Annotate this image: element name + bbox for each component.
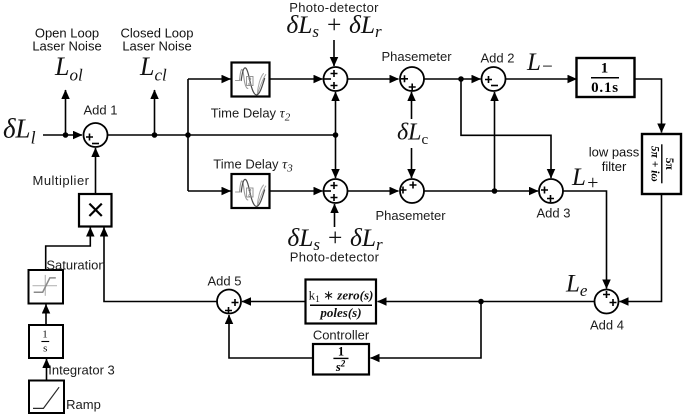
svg-text:Ramp: Ramp — [66, 397, 101, 412]
svg-text:1: 1 — [338, 344, 344, 358]
node Closed Loop Laser Noise label — [121, 26, 194, 54]
node junction after phasemeter top — [458, 76, 464, 82]
wire Time Delay tau2 to sum — [270, 78, 323, 80]
node delta L_l input label — [3, 114, 36, 148]
wire branch to 1/s^2 controller — [371, 302, 482, 359]
svg-text:Add 5: Add 5 — [208, 274, 242, 289]
wire Time Delay tau3 to sum — [270, 190, 323, 192]
svg-text:Integrator 3: Integrator 3 — [48, 363, 115, 378]
svg-text:Photo-detector: Photo-detector — [290, 250, 380, 265]
node junction controller branch — [478, 299, 484, 305]
wire branch up to top sum — [335, 92, 337, 135]
svg-text:Laser Noise: Laser Noise — [122, 39, 191, 54]
svg-text:Add 1: Add 1 — [84, 103, 118, 118]
wire phasemeter top output — [424, 78, 481, 80]
svg-text:Add 4: Add 4 — [590, 318, 624, 333]
node L_e label — [565, 271, 588, 301]
summing junction Add 2 — [481, 51, 515, 92]
summing junction Add 5 — [208, 274, 242, 315]
wire branch down to bottom sum — [335, 135, 337, 178]
wire branch down to Add 3 — [461, 79, 551, 178]
wire Add 2 output to integrator block — [506, 78, 577, 80]
wire input to Add 1 — [43, 134, 82, 136]
wire sum to phasemeter bottom — [348, 190, 399, 192]
wire integrator output to saturation — [45, 305, 47, 326]
svg-text:Multiplier: Multiplier — [32, 173, 89, 188]
wire saturation output to multiplier — [46, 228, 91, 271]
block multiplier — [32, 173, 111, 227]
node junction closed-loop tap — [152, 132, 158, 138]
wire photodetector noise down arrow top — [333, 40, 335, 66]
svg-text:5π + iω: 5π + iω — [648, 146, 660, 182]
wire Add 4 output to zero block — [378, 301, 595, 303]
block low pass filter 5pi/(5pi+iw) — [589, 134, 681, 194]
wire Add 3 output to Add 4 — [563, 191, 607, 289]
svg-text:Phasemeter: Phasemeter — [375, 208, 446, 223]
node junction split to delay rows — [185, 132, 191, 138]
wire multiplier output to Add 1 — [95, 148, 97, 194]
block ramp — [29, 381, 101, 414]
svg-text:s: s — [43, 343, 47, 355]
wire open loop tap up arrow — [65, 90, 67, 135]
node L_cl label — [139, 52, 167, 85]
wire branch up to Add 2 — [494, 92, 496, 191]
wire vertical split — [187, 79, 189, 191]
wire photodetector noise up arrow bottom — [334, 204, 336, 227]
summing junction Phasemeter bottom — [375, 179, 446, 223]
svg-text:δLs + δLr: δLs + δLr — [286, 10, 382, 41]
node delta Ls + delta Lr top label — [286, 10, 382, 41]
node delta Ls + delta Lr bottom label — [287, 223, 383, 254]
node delta L_c label — [397, 120, 429, 149]
node junction open-loop tap — [63, 132, 69, 138]
svg-text:Controller: Controller — [313, 328, 370, 343]
wire to Time Delay tau3 — [188, 190, 231, 192]
block saturation — [29, 258, 106, 304]
wire 1/s^2 output to Add 5 — [229, 315, 313, 358]
wire sum to phasemeter top — [348, 78, 399, 80]
block k1*zero(s)/poles(s) — [306, 280, 377, 324]
svg-text:low pass: low pass — [589, 145, 640, 160]
block Time Delay tau3 — [213, 157, 293, 209]
summing junction Add 4 — [590, 290, 624, 333]
svg-text:poles(s): poles(s) — [319, 305, 361, 320]
wire phasemeter bottom output to Add 3 — [424, 190, 538, 192]
block integrator 1/s — [29, 325, 115, 378]
node L_plus label — [571, 164, 599, 194]
svg-text:5π: 5π — [663, 158, 675, 171]
svg-text:Saturation: Saturation — [46, 258, 105, 273]
svg-text:Add 2: Add 2 — [481, 51, 515, 66]
wire 1/0.1s output to low pass filter — [635, 79, 662, 133]
svg-text:0.1s: 0.1s — [591, 80, 619, 96]
svg-text:Add 3: Add 3 — [537, 206, 571, 221]
svg-text:Laser Noise: Laser Noise — [32, 39, 101, 54]
wire ramp output to integrator — [46, 359, 48, 381]
summing junction Phasemeter top — [381, 49, 452, 91]
wire Add 1 output main line — [108, 134, 336, 136]
svg-text:1: 1 — [601, 61, 609, 77]
block 1/0.1s — [577, 58, 635, 97]
node junction after phasemeter bottom — [492, 188, 498, 194]
summing junction Add 1 — [84, 103, 118, 148]
wire zero block output to Add 5 — [242, 301, 306, 303]
block Time Delay tau2 — [211, 63, 291, 124]
node junction main to sums — [333, 132, 339, 138]
wire to Time Delay tau2 — [188, 78, 231, 80]
wire Add 5 output to multiplier — [104, 228, 217, 302]
block controller 1/s^2 — [313, 328, 370, 375]
svg-text:1: 1 — [42, 328, 48, 340]
svg-text:Phasemeter: Phasemeter — [381, 49, 452, 64]
summing junction photodetector bottom — [324, 179, 348, 203]
summing junction photodetector top — [324, 67, 348, 91]
wire delta L_c down arrow — [411, 148, 413, 178]
svg-text:filter: filter — [602, 159, 627, 174]
node L_minus label — [526, 49, 554, 78]
wire delta L_c up arrow — [411, 92, 413, 119]
node L_ol label — [54, 52, 83, 85]
wire closed loop tap up arrow — [154, 90, 156, 135]
summing junction Add 3 — [537, 179, 571, 221]
wire low pass filter output to Add 4 — [620, 195, 662, 302]
node Open Loop Laser Noise label — [32, 26, 101, 54]
